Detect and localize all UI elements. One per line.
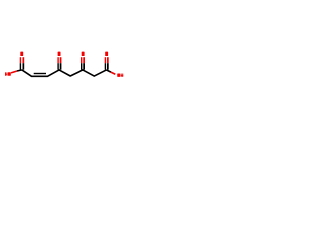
wire: bond C8-OH red half xyxy=(111,72,115,74)
hydroxyl label OH (right): H glyph xyxy=(121,74,124,77)
double bond C1=O1: red upper halves xyxy=(20,57,21,63)
carbonyl O2 label xyxy=(58,52,61,56)
double bond C8=O4: black lower halves xyxy=(105,63,106,69)
double bond C6=O3: black lower halves xyxy=(81,63,82,69)
carbon chain zigzag C1-C2=C3-C4-C5-C6-C7-C8 xyxy=(22,70,107,76)
double bond C4=O2: black lower halves xyxy=(57,63,58,69)
hydroxyl label HO (left): O glyph xyxy=(8,72,11,76)
wire: bond HO-C1 black half xyxy=(17,70,22,71)
double bond C1=O1: black lower halves xyxy=(20,63,21,69)
wire: bond C8-OH black half xyxy=(106,70,111,72)
double bond C8=O4: red upper halves xyxy=(105,57,106,63)
double bond C2=C3 inner line xyxy=(34,73,46,74)
carbonyl O4 label xyxy=(105,52,108,56)
hydroxyl label HO (left): H glyph xyxy=(5,72,7,75)
carbonyl O3 label xyxy=(82,52,85,56)
double bond C4=O2: red upper halves xyxy=(57,57,58,63)
carbonyl O1 label xyxy=(20,52,23,56)
double bond C6=O3: red upper halves xyxy=(81,57,82,63)
wire: bond HO-C1 red half xyxy=(11,71,17,73)
hydroxyl label OH (right): O glyph xyxy=(117,73,120,76)
chemical structure: maleylacetoacetic acid skeletal formula xyxy=(0,0,130,130)
